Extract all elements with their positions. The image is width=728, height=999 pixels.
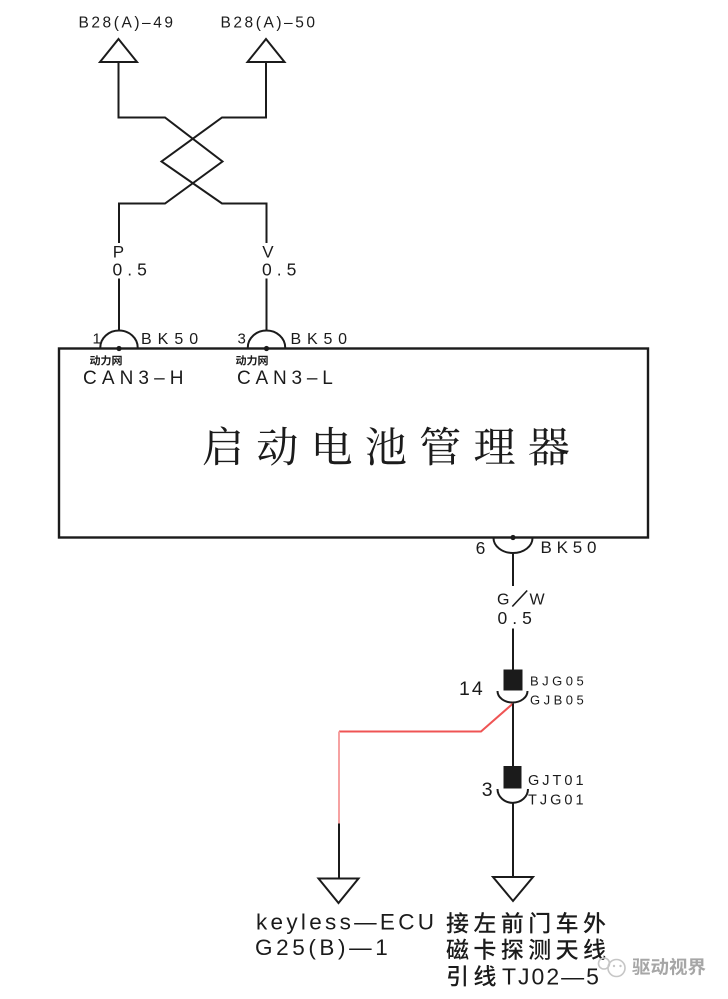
svg-text:3: 3 [238,331,246,348]
svg-text:GJB05: GJB05 [530,693,587,708]
svg-text:B28(A)–49: B28(A)–49 [79,15,176,32]
svg-text:0.5: 0.5 [262,260,301,280]
wire from TJG01 to antenna arrow [512,804,514,878]
svg-text:CAN3–L: CAN3–L [237,368,338,389]
wire (black tail) of keyless-ECU branch [338,824,340,879]
svg-text:GJT01: GJT01 [528,773,587,789]
wire CAN-L from arrow B28(A)-50 through twisted-pair cross [162,62,267,243]
svg-text:BK50: BK50 [291,331,353,348]
svg-text:BK50: BK50 [141,331,204,348]
svg-text:TJ02—5: TJ02—5 [502,964,601,990]
pin 1 junction dot [116,346,121,351]
pin 3 connector arc [248,331,285,348]
watermark text 驱动视界 [632,958,705,976]
svg-text:TJG01: TJG01 [528,793,587,809]
wire V to pin 3 [266,279,268,331]
pin 14 connector arc [498,691,528,703]
inline connector housing GJT01 (black block) [504,766,522,789]
net label 动力网 (power net) for CAN3-H [90,355,122,365]
pin 3 connector arc (lower connector) [498,789,529,803]
off-page connector arrow to keyless-ECU [319,879,359,904]
pin 6 connector arc [494,538,533,553]
svg-text:14: 14 [459,678,485,700]
svg-text:CAN3–H: CAN3–H [83,368,189,389]
svg-text:W: W [530,592,546,609]
svg-text:0.5: 0.5 [113,260,152,280]
destination label 接左前门车外磁卡探测天线引线TJ02-5 [447,912,606,934]
highlighted (red) branch wire vertical segment [338,732,340,824]
pin 1 connector arc [100,331,137,348]
watermark logo (cartoon face) [599,958,626,977]
highlighted (red) branch wire to keyless-ECU [339,704,513,732]
wire G/W continues to connector BJG05 [512,629,514,670]
svg-text:6: 6 [476,538,486,558]
svg-text:BK50: BK50 [541,538,602,557]
svg-text:3: 3 [482,779,493,801]
svg-text:G25(B)—1: G25(B)—1 [255,935,391,960]
inline connector housing BJG05 (black block) [504,670,523,691]
pin 3 junction dot [264,346,269,351]
off-page connector arrow to B28(A)-49 [100,39,137,62]
wire from junction to connector GJT01 [512,704,514,767]
svg-text:BJG05: BJG05 [530,674,587,689]
svg-text:B28(A)–50: B28(A)–50 [221,15,318,32]
off-page connector arrow to B28(A)-50 [248,39,285,62]
pin 6 junction dot [510,535,515,540]
wire P to pin 1 [118,279,120,331]
svg-text:1: 1 [93,331,101,348]
ECU box 启动电池管理器 (start battery manager) [59,349,648,538]
svg-text:G: G [497,592,509,609]
svg-text:keyless—ECU: keyless—ECU [256,910,437,935]
net label 动力网 (power net) for CAN3-L [236,355,268,365]
wire CAN-H from arrow B28(A)-49 through twisted-pair cross [119,62,223,243]
box title 启动电池管理器 [204,426,569,465]
off-page connector arrow to door antenna lead [493,877,533,901]
svg-text:0.5: 0.5 [498,608,537,628]
wire from pin 6 [512,554,514,586]
